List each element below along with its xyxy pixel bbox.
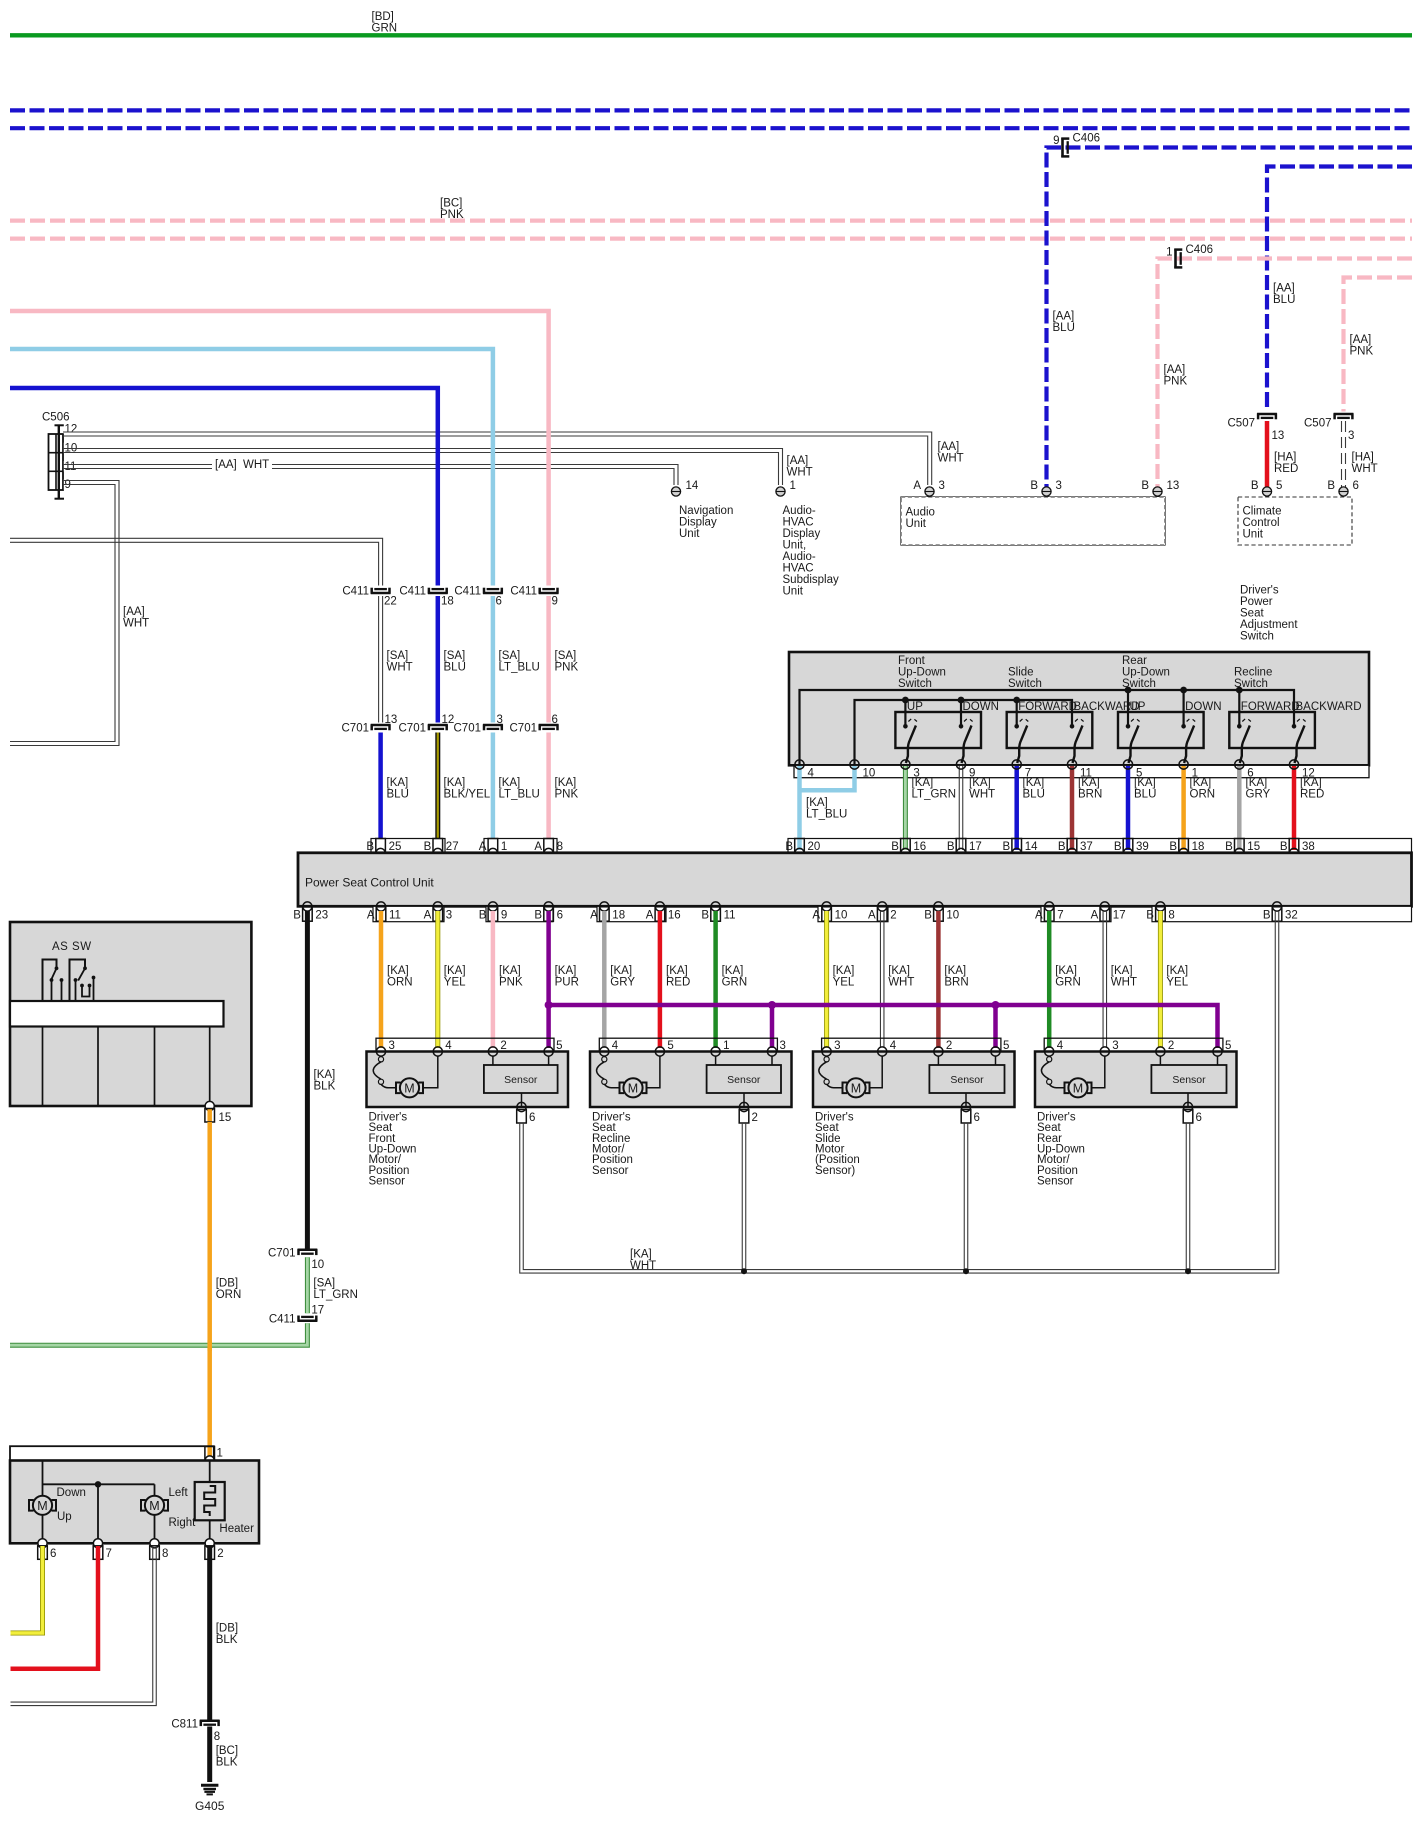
- terminal Driver's Seat Slide Motor (Position Sensor) pin 2: [934, 1047, 943, 1056]
- switch pin numbers strip: [794, 765, 1369, 777]
- svg-text:WHT: WHT: [630, 1260, 656, 1272]
- svg-text:BLU: BLU: [1053, 322, 1075, 334]
- svg-text:Switch: Switch: [898, 678, 932, 690]
- wire [KA] PUR PSCU B6 to purple bus: [546, 911, 551, 1048]
- connector C701 pin 12: [428, 724, 448, 727]
- wire AS SW internal 4: [209, 1027, 211, 1107]
- svg-text:Left: Left: [169, 1487, 189, 1499]
- svg-text:[SA]: [SA]: [387, 650, 409, 662]
- svg-text:[AA]: [AA]: [1053, 311, 1075, 323]
- svg-text:38: 38: [1302, 841, 1315, 853]
- wire WHT seat 8 off page: [11, 1546, 157, 1706]
- svg-text:C701: C701: [510, 723, 538, 735]
- svg-text:[KA]: [KA]: [969, 777, 991, 789]
- svg-text:Up-Down: Up-Down: [1122, 667, 1170, 679]
- svg-text:8: 8: [557, 841, 563, 853]
- box Driver's Seat Slide Motor (Position Sensor): [813, 1052, 1015, 1108]
- svg-text:C411: C411: [510, 586, 537, 598]
- svg-text:B: B: [479, 910, 487, 922]
- wire [KA] RED switch 12 to PSCU B38: [1292, 766, 1297, 850]
- svg-text:M: M: [851, 1081, 861, 1095]
- svg-text:WHT: WHT: [938, 453, 964, 465]
- connector C701 pin 13: [371, 724, 391, 727]
- svg-text:C406: C406: [1186, 244, 1214, 256]
- svg-text:[KA]: [KA]: [555, 777, 577, 789]
- svg-text:B: B: [1225, 841, 1233, 853]
- svg-text:WHT: WHT: [787, 467, 813, 479]
- wire [KA] BLU switch 7 to PSCU B14: [1014, 766, 1019, 850]
- terminal Driver's Seat Recline Motor/Position Sensor pin 3: [767, 1047, 776, 1056]
- svg-text:C701: C701: [399, 723, 427, 735]
- svg-text:[KA]: [KA]: [444, 777, 466, 789]
- svg-text:Unit: Unit: [1243, 529, 1264, 541]
- svg-text:9: 9: [552, 595, 558, 607]
- svg-text:[KA]: [KA]: [912, 777, 934, 789]
- connector C411 pin 6: [483, 592, 503, 595]
- svg-text:C411: C411: [342, 586, 369, 598]
- pin strip Driver's Seat Rear Up-Down Motor/Position Sensor: [1044, 1038, 1223, 1051]
- unit box Audio Unit: [901, 497, 1165, 545]
- svg-text:[KA]: [KA]: [610, 965, 632, 977]
- box seat motors and heater: [10, 1461, 259, 1544]
- svg-text:B: B: [1141, 480, 1149, 492]
- svg-text:HVAC: HVAC: [783, 516, 814, 528]
- svg-text:B: B: [891, 841, 899, 853]
- terminal Driver's Seat Recline Motor/Position Sensor bottom pin 2: [739, 1102, 748, 1111]
- terminal PSCU A 16 (bottom): [655, 902, 664, 911]
- svg-text:C411: C411: [399, 586, 426, 598]
- wire blue dashed bus 2: [10, 126, 1412, 130]
- wire C506 pin 11 WHT to Navigation Display Unit pin 14: [63, 465, 678, 486]
- svg-text:6: 6: [552, 714, 558, 726]
- svg-text:ORN: ORN: [387, 977, 413, 989]
- wire [AA] BLU branch to C507 pin 13: [1267, 167, 1412, 412]
- svg-text:PNK: PNK: [499, 977, 523, 989]
- terminal Driver's Seat Front Up-Down Motor/Position Sensor pin 5: [544, 1047, 553, 1056]
- wire [KA] YEL PSCU A3 to motor1 pin 4: [435, 911, 440, 1048]
- svg-text:WHT: WHT: [243, 459, 269, 471]
- svg-text:2: 2: [500, 1040, 506, 1052]
- label [AA] WHT inline on pin 11 wire: [212, 457, 272, 471]
- svg-text:Sensor: Sensor: [504, 1074, 538, 1086]
- svg-text:13: 13: [1167, 480, 1180, 492]
- svg-text:5: 5: [1276, 480, 1282, 492]
- svg-text:Adjustment: Adjustment: [1240, 619, 1298, 631]
- svg-text:WHT: WHT: [123, 618, 149, 630]
- box Driver's Power Seat Adjustment Switch: [789, 652, 1369, 765]
- motor M Up-Down seat: [42, 1461, 44, 1496]
- wire [AA] PNK branch to Audio Unit B13: [1158, 259, 1413, 488]
- svg-text:BRN: BRN: [1078, 789, 1102, 801]
- svg-text:[KA]: [KA]: [630, 1249, 652, 1261]
- svg-text:B: B: [1003, 841, 1011, 853]
- svg-text:10: 10: [946, 910, 959, 922]
- svg-text:HVAC: HVAC: [783, 562, 814, 574]
- svg-text:C701: C701: [268, 1248, 296, 1260]
- terminal seat box 1: [207, 1446, 212, 1458]
- svg-text:Climate: Climate: [1243, 506, 1282, 518]
- svg-text:[KA]: [KA]: [833, 965, 855, 977]
- connector C411 pin 17: [298, 1320, 318, 1323]
- wire [DB] ORN AS SW 15 to seat box 1: [207, 1122, 212, 1457]
- wire switch bus from terminal 4: [800, 690, 1295, 765]
- wire [SA] LT_GRN C701-10 to C411-17: [305, 1257, 310, 1313]
- box AS SW: [10, 922, 251, 1106]
- svg-text:37: 37: [1080, 841, 1093, 853]
- terminal A3 Audio Unit: [925, 487, 934, 496]
- svg-text:Audio-: Audio-: [783, 505, 816, 517]
- svg-text:A: A: [646, 910, 654, 922]
- svg-text:9: 9: [501, 910, 507, 922]
- svg-text:RED: RED: [1274, 463, 1298, 475]
- svg-text:[AA]: [AA]: [123, 606, 145, 618]
- wire [DB] BLK seat 2 to C811: [207, 1546, 212, 1721]
- svg-text:B: B: [1280, 841, 1288, 853]
- switch terminal circle 11: [1067, 760, 1076, 769]
- pin strip PSCU top A1 A8: [484, 839, 557, 853]
- svg-text:27: 27: [446, 841, 459, 853]
- terminal PSCU A 7 (bottom): [1045, 902, 1054, 911]
- wire [AA] BLU branch to Audio Unit B3: [1047, 148, 1413, 488]
- svg-text:B: B: [1030, 480, 1038, 492]
- wire LT_GRN C411-17 left off page: [10, 1323, 307, 1345]
- svg-text:[KA]: [KA]: [1078, 777, 1100, 789]
- svg-text:2: 2: [946, 1040, 952, 1052]
- svg-text:10: 10: [863, 767, 876, 779]
- svg-text:[KA]: [KA]: [555, 965, 577, 977]
- svg-text:[KA]: [KA]: [1134, 777, 1156, 789]
- terminal PSCU B 6 (bottom): [544, 902, 553, 911]
- svg-text:39: 39: [1136, 841, 1149, 853]
- svg-text:17: 17: [969, 841, 982, 853]
- svg-text:10: 10: [835, 910, 848, 922]
- switch terminal circle 10: [850, 760, 859, 769]
- terminal Driver's Seat Rear Up-Down Motor/Position Sensor pin 3: [1100, 1047, 1109, 1056]
- wire switch contact stub with junction at x=905: [904, 700, 906, 726]
- junction purple bus at B6 drop: [545, 1001, 553, 1009]
- svg-text:3: 3: [780, 1040, 786, 1052]
- svg-text:3: 3: [1348, 430, 1354, 442]
- terminal 14 Navigation Display Unit: [671, 487, 680, 496]
- svg-text:1: 1: [723, 1040, 729, 1052]
- svg-text:6: 6: [50, 1548, 56, 1560]
- connector C701 pin 10: [298, 1249, 318, 1252]
- svg-text:UP: UP: [1130, 701, 1146, 713]
- connector C406 pin 9: [1061, 138, 1064, 158]
- svg-text:Down: Down: [57, 1487, 86, 1499]
- svg-text:16: 16: [668, 910, 681, 922]
- wire [KA] LT_BLU to PSCU A1: [491, 733, 496, 851]
- svg-text:PNK: PNK: [555, 789, 579, 801]
- switch terminal circle 4: [795, 760, 804, 769]
- svg-text:Switch: Switch: [1240, 630, 1274, 642]
- wire switch contact stub with junction at x=961: [960, 700, 962, 726]
- svg-text:Switch: Switch: [1008, 678, 1042, 690]
- svg-text:11: 11: [389, 910, 401, 922]
- svg-text:3: 3: [446, 910, 452, 922]
- terminal Driver's Seat Front Up-Down Motor/Position Sensor pin 4: [433, 1047, 442, 1056]
- svg-text:8: 8: [1168, 910, 1174, 922]
- svg-text:Right: Right: [169, 1517, 197, 1529]
- svg-text:4: 4: [445, 1040, 452, 1052]
- terminal Driver's Seat Rear Up-Down Motor/Position Sensor pin 2: [1156, 1047, 1165, 1056]
- terminal Driver's Seat Slide Motor (Position Sensor) bottom pin 6: [961, 1102, 970, 1111]
- svg-text:Up-Down: Up-Down: [898, 667, 946, 679]
- terminal Driver's Seat Front Up-Down Motor/Position Sensor pin 2: [488, 1047, 497, 1056]
- sensor box Driver's Seat Recline Motor/Position Sensor: [715, 1056, 717, 1065]
- svg-text:Front: Front: [898, 655, 926, 667]
- connector C701 pin 3: [483, 724, 503, 727]
- svg-text:3: 3: [497, 714, 503, 726]
- svg-text:A: A: [913, 480, 921, 492]
- svg-text:M: M: [37, 1499, 47, 1513]
- svg-text:25: 25: [389, 841, 402, 853]
- svg-text:[BC]: [BC]: [216, 1745, 238, 1757]
- svg-text:BLU: BLU: [1023, 789, 1045, 801]
- connector C811 pin 8: [200, 1720, 220, 1723]
- wire [SA] WHT C411-22 to C701-13: [382, 596, 384, 723]
- wire [SA] LT_BLU C411-6 to C701-3: [491, 596, 496, 723]
- svg-text:[BC]: [BC]: [440, 198, 462, 210]
- svg-text:6: 6: [496, 595, 502, 607]
- wire C506 pin 10 WHT to Audio-HVAC Display Unit pin 1: [63, 449, 783, 486]
- wire [KA] WHT PSCU A2 to motor3 pin 4: [879, 911, 881, 1048]
- terminal seat box 6: [38, 1539, 47, 1548]
- connector C507 pin 3: [1334, 413, 1354, 416]
- wire [KA] YEL PSCU B8 to motor4 pin 2: [1158, 911, 1163, 1048]
- svg-text:BACKWARD: BACKWARD: [1296, 701, 1362, 713]
- svg-text:5: 5: [667, 1040, 673, 1052]
- svg-text:3: 3: [939, 480, 945, 492]
- svg-text:[HA]: [HA]: [1274, 451, 1296, 463]
- terminal Driver's Seat Recline Motor/Position Sensor pin 1: [711, 1047, 720, 1056]
- connector C507 pin 13: [1257, 413, 1277, 416]
- svg-text:M: M: [628, 1081, 638, 1095]
- svg-text:Up: Up: [57, 1511, 72, 1523]
- wire [KA] BLU switch 5 to PSCU B39: [1126, 766, 1131, 850]
- svg-text:A: A: [424, 910, 432, 922]
- svg-text:1: 1: [501, 841, 507, 853]
- sensor box Driver's Seat Rear Up-Down Motor/Position Sensor: [1159, 1056, 1161, 1065]
- connector C406 pin 1: [1174, 249, 1177, 269]
- svg-text:B: B: [1327, 480, 1335, 492]
- svg-text:ORN: ORN: [216, 1289, 242, 1301]
- svg-text:GRN: GRN: [372, 22, 398, 34]
- svg-text:Driver's: Driver's: [1240, 584, 1279, 596]
- svg-text:B: B: [424, 841, 432, 853]
- box Driver's Seat Rear Up-Down Motor/Position Sensor: [1035, 1052, 1237, 1108]
- svg-text:[KA]: [KA]: [1055, 965, 1077, 977]
- svg-text:14: 14: [1025, 841, 1038, 853]
- svg-text:C701: C701: [342, 723, 370, 735]
- wire [KA] BLK PSCU B23 to C701 pin 10: [305, 911, 310, 1250]
- svg-text:B: B: [701, 910, 709, 922]
- junction seat box link: [95, 1481, 101, 1487]
- svg-text:5: 5: [556, 1040, 562, 1052]
- svg-text:WHT: WHT: [387, 662, 413, 674]
- terminal Driver's Seat Slide Motor (Position Sensor) pin 4: [878, 1047, 887, 1056]
- pin strip seat box top: [10, 1446, 214, 1460]
- pin strip PSCU top right B20-B38: [788, 839, 1412, 853]
- svg-text:Sensor: Sensor: [1037, 1176, 1074, 1188]
- svg-text:GRY: GRY: [1246, 789, 1271, 801]
- heater element: [209, 1461, 211, 1483]
- svg-text:A: A: [868, 910, 876, 922]
- svg-text:4: 4: [612, 1040, 619, 1052]
- svg-text:B: B: [366, 841, 374, 853]
- wire AS SW internal 1: [42, 1027, 44, 1107]
- terminal PSCU A 11 (bottom): [376, 902, 385, 911]
- svg-text:1: 1: [1166, 247, 1172, 259]
- svg-text:Power Seat Control Unit: Power Seat Control Unit: [305, 876, 434, 890]
- svg-text:Slide: Slide: [1008, 667, 1034, 679]
- sensor box Driver's Seat Front Up-Down Motor/Position Sensor: [492, 1056, 494, 1065]
- svg-text:[KA]: [KA]: [1023, 777, 1045, 789]
- svg-text:GRY: GRY: [610, 977, 635, 989]
- box Slide Switch contacts: [1007, 712, 1093, 748]
- terminal seat box 7: [93, 1539, 102, 1548]
- svg-text:Unit: Unit: [783, 585, 804, 597]
- svg-text:3: 3: [834, 1040, 840, 1052]
- wire [HA] WHT dashed: [1341, 421, 1343, 488]
- svg-text:B: B: [1146, 910, 1154, 922]
- svg-text:10: 10: [311, 1259, 324, 1271]
- svg-text:13: 13: [385, 714, 398, 726]
- svg-text:[AA]: [AA]: [938, 441, 960, 453]
- wire switch contact stub with junction at x=1017: [1016, 700, 1018, 726]
- sensor box Driver's Seat Slide Motor (Position Sensor): [937, 1056, 939, 1065]
- wire switch contact stub with junction at x=1239: [1238, 690, 1240, 726]
- connector C411 pin 18: [428, 592, 448, 595]
- connector C701 pin 6: [539, 724, 559, 727]
- svg-text:12: 12: [442, 714, 455, 726]
- connector C411 pin 22: [371, 592, 391, 595]
- svg-text:YEL: YEL: [833, 977, 855, 989]
- svg-text:5: 5: [1003, 1040, 1009, 1052]
- junction purple bus at motor3: [992, 1001, 1000, 1009]
- svg-text:Display: Display: [679, 516, 717, 528]
- motor M Left-Right seat: [141, 1500, 146, 1511]
- svg-text:8: 8: [162, 1548, 168, 1560]
- svg-text:A: A: [479, 841, 487, 853]
- svg-text:Sensor: Sensor: [369, 1176, 406, 1188]
- wire [KA] GRN PSCU B11 to motor2 pin 1: [713, 911, 718, 1048]
- svg-text:B: B: [924, 910, 932, 922]
- wire YEL seat 6 off page: [11, 1546, 43, 1633]
- wire [KA] LT_BLU switch 4+10 to PSCU B20: [800, 766, 855, 790]
- svg-text:BLK: BLK: [216, 1757, 238, 1769]
- svg-text:13: 13: [1272, 430, 1285, 442]
- ground G405: [201, 1784, 218, 1787]
- svg-text:16: 16: [913, 841, 926, 853]
- svg-text:GRN: GRN: [722, 977, 748, 989]
- svg-text:[BD]: [BD]: [372, 11, 394, 23]
- connector C411 pin 9: [539, 592, 559, 595]
- svg-text:Sensor: Sensor: [1172, 1074, 1206, 1086]
- wire [KA] BLK/YEL to PSCU B27: [435, 733, 440, 851]
- svg-text:[AA]: [AA]: [215, 459, 237, 471]
- terminal Driver's Seat Rear Up-Down Motor/Position Sensor pin 4: [1045, 1047, 1054, 1056]
- svg-text:Sensor: Sensor: [592, 1165, 629, 1177]
- svg-text:2: 2: [752, 1112, 758, 1124]
- svg-text:DOWN: DOWN: [963, 701, 999, 713]
- terminal B3 Audio Unit: [1042, 487, 1051, 496]
- svg-text:M: M: [149, 1499, 159, 1513]
- svg-text:C701: C701: [454, 723, 482, 735]
- svg-text:[KA]: [KA]: [944, 965, 966, 977]
- terminal Driver's Seat Recline Motor/Position Sensor pin 4: [600, 1047, 609, 1056]
- svg-text:1: 1: [790, 480, 796, 492]
- svg-text:RED: RED: [1300, 789, 1324, 801]
- terminal PSCU A 18 (bottom): [600, 902, 609, 911]
- svg-text:[KA]: [KA]: [499, 777, 521, 789]
- wire [AA] PNK branch to C507 pin 3: [1344, 278, 1413, 412]
- svg-text:6: 6: [974, 1112, 980, 1124]
- wire [KA] GRY switch 6 to PSCU B15: [1237, 766, 1242, 850]
- wire PNK from left to C411 pin 9: [10, 311, 549, 586]
- svg-text:6: 6: [529, 1112, 535, 1124]
- svg-text:[KA]: [KA]: [1190, 777, 1212, 789]
- wire BLU from left to C411 pin 18: [10, 388, 438, 586]
- svg-text:Subdisplay: Subdisplay: [783, 574, 840, 586]
- svg-text:[KA]: [KA]: [387, 965, 409, 977]
- svg-text:Heater: Heater: [219, 1523, 254, 1535]
- svg-text:PUR: PUR: [555, 977, 579, 989]
- terminal PSCU A 3 (bottom): [433, 902, 442, 911]
- svg-text:[KA]: [KA]: [314, 1069, 336, 1081]
- motor M Driver's Seat Slide Motor (Position Sensor): [824, 1057, 829, 1062]
- svg-text:6: 6: [1353, 480, 1359, 492]
- unit box Climate Control Unit: [1238, 497, 1352, 545]
- svg-text:[KA]: [KA]: [1111, 965, 1133, 977]
- pin strip PSCU top B25 B27: [371, 839, 445, 853]
- svg-text:BLU: BLU: [387, 789, 409, 801]
- wire [KA] ORN PSCU A11 to motor1 pin 3: [379, 911, 384, 1048]
- pin strip PSCU bottom B9 B6: [486, 906, 553, 921]
- svg-text:C811: C811: [171, 1719, 198, 1731]
- svg-text:14: 14: [686, 480, 699, 492]
- svg-text:B: B: [534, 910, 542, 922]
- wire LT_BLU from left to C411 pin 6: [10, 349, 493, 586]
- wire [KA] PUR distribution bus: [549, 1005, 1218, 1048]
- svg-text:Unit: Unit: [679, 528, 700, 540]
- terminal Driver's Seat Front Up-Down Motor/Position Sensor bottom pin 6: [517, 1102, 526, 1111]
- svg-text:Navigation: Navigation: [679, 505, 733, 517]
- motor M Driver's Seat Front Up-Down Motor/Position Sensor: [378, 1057, 383, 1062]
- svg-text:Recline: Recline: [1234, 667, 1272, 679]
- svg-text:1: 1: [217, 1448, 223, 1460]
- switch symbol AS SW: [43, 960, 57, 1002]
- svg-text:B: B: [947, 841, 955, 853]
- motor M Driver's Seat Recline Motor/Position Sensor: [602, 1057, 607, 1062]
- svg-text:C507: C507: [1228, 418, 1256, 430]
- svg-text:Control: Control: [1243, 517, 1280, 529]
- svg-text:[KA]: [KA]: [1246, 777, 1268, 789]
- svg-text:B: B: [1169, 841, 1177, 853]
- box Driver's Seat Front Up-Down Motor/Position Sensor: [367, 1052, 569, 1108]
- junction sensor bus motor4: [1185, 1268, 1191, 1274]
- box Driver's Seat Recline Motor/Position Sensor: [590, 1052, 792, 1108]
- svg-text:BLK/YEL: BLK/YEL: [444, 789, 491, 801]
- svg-text:PNK: PNK: [1350, 346, 1374, 358]
- wire [KA] BRN PSCU B10 to motor3 pin 2: [936, 911, 941, 1048]
- switch terminal circle 7: [1012, 760, 1021, 769]
- wire C506 pin 12 WHT to Audio Unit A3: [63, 432, 932, 485]
- svg-text:[SA]: [SA]: [555, 650, 577, 662]
- svg-text:4: 4: [1057, 1040, 1064, 1052]
- svg-text:ORN: ORN: [1190, 789, 1216, 801]
- svg-text:GRN: GRN: [1055, 977, 1081, 989]
